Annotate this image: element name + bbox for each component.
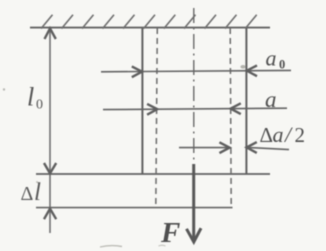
- a dimension line: [103, 108, 287, 109]
- svg-text:Δ: Δ: [21, 183, 34, 205]
- svg-text:0: 0: [279, 58, 285, 72]
- centerline (dash-dot axis): [193, 8, 195, 163]
- force F arrow: [192, 164, 195, 241]
- svg-text:2: 2: [295, 123, 306, 147]
- dimension line (l0 and delta-l): [49, 29, 51, 234]
- svg-text:l: l: [27, 83, 34, 112]
- svg-text:a: a: [265, 87, 277, 112]
- stretched bar right dashed edge: [230, 28, 231, 207]
- svg-text:0: 0: [36, 98, 43, 113]
- bar left solid edge: [141, 28, 143, 174]
- svg-text:l: l: [34, 179, 41, 206]
- delta-a/2 left arrow: [179, 147, 230, 149]
- a0 right arrowhead: [247, 65, 257, 76]
- svg-text:F: F: [160, 217, 180, 249]
- arrowhead down at bar bottom: [44, 163, 56, 173]
- a0 left arrowhead: [132, 66, 142, 77]
- stretched bar left dashed edge: [156, 28, 158, 207]
- arrowhead up at lower line: [44, 209, 56, 220]
- delta-a/2 right arrow: [247, 147, 289, 149]
- a0 dimension line: [101, 70, 291, 71]
- svg-text:a: a: [273, 122, 284, 147]
- svg-text:a: a: [266, 46, 277, 71]
- a left arrowhead: [147, 104, 157, 115]
- arrowhead up at ceiling: [45, 28, 56, 39]
- bar right solid edge: [245, 28, 247, 174]
- svg-text:Δ: Δ: [260, 123, 274, 147]
- stretched bar bottom line: [36, 207, 233, 209]
- a right arrowhead: [231, 103, 241, 114]
- faint speckles from scan: [3, 88, 5, 90]
- ceiling hatch marks: [41, 15, 257, 29]
- ceiling line: [30, 27, 270, 29]
- bar bottom line: [36, 173, 270, 175]
